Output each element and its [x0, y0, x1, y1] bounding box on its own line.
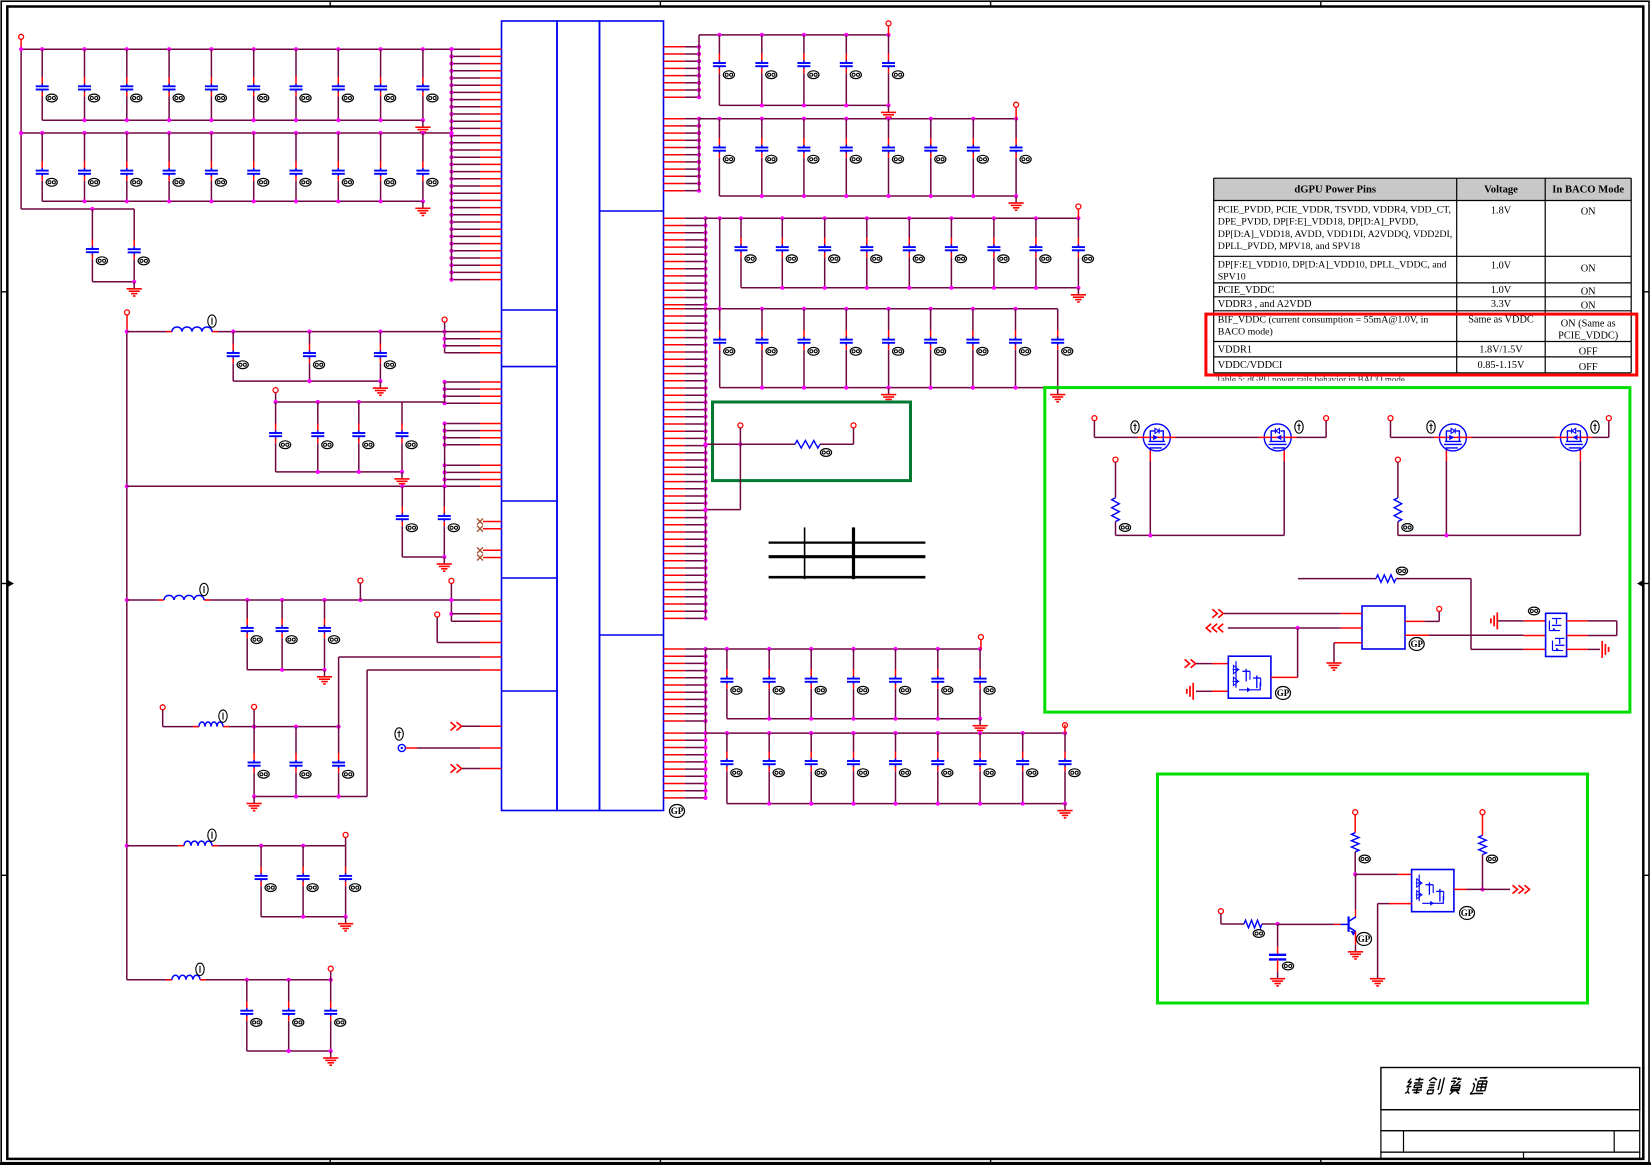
svg-text:ON: ON: [1581, 301, 1596, 312]
port P26: [1353, 810, 1358, 815]
capacitor C201 (row2): [36, 133, 58, 201]
wire U2 out1 to port: [1405, 612, 1439, 622]
capacitor C406: [352, 402, 374, 472]
label R2: [1119, 524, 1130, 532]
resistor R4 (series): [1298, 575, 1471, 583]
port P4: [435, 612, 440, 617]
testpoint TP1 (no-connect circle): [398, 744, 405, 751]
resistor R5 (pull-up): [1351, 815, 1359, 877]
U1 left no-connect pins group 5a: [483, 522, 502, 529]
U1 part label: [670, 805, 685, 818]
wire left main bus: [125, 315, 129, 980]
port P13: [1014, 102, 1019, 107]
wire Q8 pin2 to ground: [1378, 904, 1412, 972]
ground G5: [247, 797, 262, 811]
capacitor C501 (rowR1): [713, 35, 735, 106]
svg-text:DPLL_PVDD, MPV18, and SPV18: DPLL_PVDD, MPV18, and SPV18: [1218, 241, 1360, 252]
wire cap row R2 top bus: [699, 117, 1018, 121]
svg-text:3.3V: 3.3V: [1491, 299, 1512, 310]
svg-text:VDDR3 , and A2VDD: VDDR3 , and A2VDD: [1218, 299, 1312, 310]
capacitor C106 (row1): [247, 49, 269, 120]
svg-text:PCIE_VDDC): PCIE_VDDC): [1558, 331, 1618, 342]
capacitor C420: [282, 980, 304, 1051]
capacitor C107 (row1): [290, 49, 312, 120]
capacitor C904 (rowR5): [847, 649, 869, 719]
wire left pin bus 4: [444, 424, 446, 487]
svg-text:ON: ON: [1581, 207, 1596, 218]
svg-text:SPV10: SPV10: [1218, 272, 1246, 283]
capacitor C409: [438, 486, 460, 557]
capacitor C707 (rowR3): [987, 218, 1009, 287]
wire G1 bus: [127, 330, 445, 334]
wire U2 out2 to Q5 box: [1405, 634, 1546, 636]
port P8: [160, 705, 165, 710]
label Q9: [1357, 933, 1372, 946]
ground Q8: [1370, 972, 1385, 986]
capacitor C204 (row2): [163, 133, 185, 201]
wire port P16 stem: [1064, 725, 1066, 734]
label TP1: [395, 728, 403, 740]
label R4: [1396, 567, 1407, 575]
transistor Q6 (dual FET pack): [1228, 656, 1271, 698]
capacitor C414: [290, 727, 312, 797]
wire Q1-Q2: [1176, 436, 1260, 438]
transistor Q1 (PMOS): [1138, 424, 1176, 462]
off-page connector (<<<) U2 input: [1206, 624, 1223, 632]
resistor R7 (pull-up): [1479, 815, 1487, 892]
capacitor C504 (rowR1): [840, 35, 862, 106]
ground (side) Q7 out: [1602, 641, 1608, 658]
wire cap row R6 top bus: [706, 731, 1068, 735]
capacitor C708 (rowR3): [1029, 218, 1051, 287]
wire Q8 output: [1454, 888, 1510, 890]
label R3: [1402, 524, 1413, 532]
capacitor C902 (rowR5): [763, 649, 785, 719]
wire P22 to Q3: [1391, 421, 1435, 438]
wire cap row 2 top bus: [19, 131, 454, 135]
svg-text:1.0V: 1.0V: [1491, 261, 1512, 272]
highlight box (red): [1206, 314, 1637, 375]
wire Q6 gate: [1196, 663, 1228, 665]
capacitor C502 (rowR1): [755, 35, 777, 106]
label Q4: [1591, 421, 1599, 433]
ground rowR3: [1071, 288, 1086, 302]
wire R4 down-link: [1471, 579, 1546, 650]
capacitor C411: [276, 600, 298, 670]
ground rowR4a: [881, 388, 896, 402]
svg-text:DP[D:A]_VDD18, AVDD, VDD1DI, A: DP[D:A]_VDD18, AVDD, VDD1DI, A2VDDQ, VDD…: [1218, 229, 1453, 240]
capacitor C603 (rowR2): [797, 119, 819, 196]
wire cap row R2 bottom bus: [719, 194, 1018, 198]
svg-text:ON (Same as: ON (Same as: [1561, 319, 1616, 330]
wire port P2 stem and bus: [443, 322, 447, 353]
U1 right pin bank 6: [664, 731, 708, 800]
label U2: [1409, 638, 1424, 651]
capacitor C109 (row1): [374, 49, 396, 120]
wire port P10 stem: [345, 838, 347, 846]
port P19: [1092, 416, 1097, 421]
ground (cap row2): [415, 201, 430, 215]
label R7: [1486, 855, 1497, 863]
ground (side) Q6: [1187, 683, 1193, 700]
capacitor C801 (rowR4): [713, 309, 735, 388]
ground G2: [394, 472, 409, 486]
svg-text:Same as VDDC: Same as VDDC: [1468, 315, 1534, 326]
ground Q9: [1348, 945, 1363, 959]
wire port P1 stem: [20, 40, 22, 50]
wire G5 bottom bus: [252, 794, 367, 798]
capacitor C601 (rowR2): [713, 119, 735, 196]
wire G6 bus: [127, 844, 346, 848]
wire right pin bus 3: [705, 218, 707, 304]
U1 right pin bank 2: [664, 117, 702, 193]
ground rowR4b: [1050, 388, 1065, 402]
sheet right zone arrow: [1638, 580, 1649, 587]
ground rowR2: [1009, 196, 1024, 210]
capacitor C905 (rowR5): [889, 649, 911, 719]
resistor R3 (gate pull): [1394, 462, 1402, 535]
wire port P4 to pin: [437, 617, 501, 642]
wire cap row R4 top bus: [706, 307, 1058, 311]
wire gate bus right pair: [1398, 461, 1581, 538]
ground rowR1: [881, 105, 896, 119]
ground (side) Q7: [1491, 612, 1497, 629]
capacitor C402: [303, 332, 325, 382]
svg-text:BIF_VDDC (current consumption: BIF_VDDC (current consumption = 55mA@1.0…: [1218, 315, 1429, 326]
inductor L3: [193, 710, 229, 727]
wire cap row R5 top bus: [706, 647, 983, 651]
ground G4: [317, 670, 332, 684]
transistor Q7 (dual FET pack): [1546, 613, 1567, 656]
wire R5 node to Q9 collector: [1355, 874, 1357, 917]
inductor L2: [158, 583, 210, 600]
capacitor CA09 (rowR6): [1059, 733, 1081, 804]
label R1: [820, 449, 831, 457]
svg-text:dGPU Power Pins: dGPU Power Pins: [1294, 185, 1376, 196]
capacitor C703 (rowR3): [818, 218, 840, 287]
wire port P12 stem: [888, 26, 890, 35]
wire R6 to Q9 base: [1278, 923, 1341, 925]
GPU IC U1 right block: [600, 21, 664, 811]
capacitor C206 (row2): [247, 133, 269, 201]
port P28: [1480, 810, 1485, 815]
capacitor C704 (rowR3): [860, 218, 882, 287]
ground G6: [338, 917, 353, 931]
wire right pin bus 5: [705, 649, 707, 798]
capacitor C706 (rowR3): [945, 218, 967, 287]
wire cap row R6 bottom bus: [727, 802, 1067, 806]
wire U2 pin3 to ground: [1334, 643, 1362, 656]
wire port P11 stem: [330, 971, 332, 979]
svg-text:DPE_PVDD, DP[F:E]_VDD18, DP[D:: DPE_PVDD, DP[F:E]_VDD18, DP[D:A]_PVDD,: [1218, 217, 1419, 228]
resistor R6 (base): [1221, 920, 1280, 928]
capacitor C605 (rowR2): [882, 119, 904, 196]
ground U2: [1326, 656, 1341, 670]
capacitor C405: [311, 402, 333, 472]
wire Q6 drain up to U2 pin2: [1271, 628, 1298, 677]
ground C430: [1270, 972, 1285, 986]
capacitor C210 (row2): [416, 133, 438, 201]
label Q2: [1295, 421, 1303, 433]
wire cap row R5 bottom bus: [727, 717, 982, 721]
capacitor C209 (row2): [374, 133, 396, 201]
svg-text:VDDR1: VDDR1: [1218, 344, 1252, 355]
label C430: [1282, 962, 1293, 970]
wire G4 bus: [127, 598, 480, 602]
wire Q3-Q4: [1472, 436, 1556, 438]
wire cap row R1 top bus: [699, 33, 891, 37]
wire G5 bus: [163, 710, 341, 729]
sheet left zone arrow: [1, 580, 13, 587]
port P22: [1388, 416, 1393, 421]
wire cap pair top bus: [21, 207, 134, 211]
svg-text:ON: ON: [1581, 287, 1596, 298]
capacitor C104 (row1): [163, 49, 185, 120]
capacitor C404: [269, 402, 291, 472]
controller U2: [1362, 606, 1405, 649]
capacitor C809 (rowR4): [1051, 309, 1073, 388]
port P18: [851, 423, 856, 428]
port P5 (left rail): [125, 310, 130, 315]
wire G3 bus: [127, 484, 447, 488]
svg-text:PCIE_VDDC: PCIE_VDDC: [1218, 285, 1275, 296]
U1 right pin bank 1: [664, 45, 702, 100]
capacitor C401: [227, 332, 249, 382]
capacitor C418: [339, 846, 361, 917]
off-page connector (>>) pin A: [451, 722, 462, 730]
svg-text:0.85-1.15V: 0.85-1.15V: [1478, 360, 1525, 371]
capacitor C608 (rowR2): [1010, 119, 1032, 196]
port P23: [1606, 416, 1611, 421]
inductor L5: [166, 963, 206, 980]
ground G7: [323, 1051, 338, 1065]
capacitor C901 (rowR5): [720, 649, 742, 719]
svg-text:In BACO Mode: In BACO Mode: [1552, 185, 1624, 196]
svg-text:GP: GP: [671, 806, 684, 816]
wire cap row R4 bottom bus: [720, 386, 1060, 390]
capacitor C903 (rowR5): [805, 649, 827, 719]
capacitor C804 (rowR4): [840, 309, 862, 388]
U1 left pin group 6: [451, 600, 501, 621]
svg-text:GP: GP: [1461, 908, 1474, 918]
svg-text:OFF: OFF: [1579, 346, 1598, 357]
capacitor C702 (rowR3): [776, 218, 798, 287]
off-page connector (>>>) output: [1513, 885, 1530, 893]
wire port P13 stem: [1015, 107, 1017, 118]
transistor Q4 (PMOS): [1555, 424, 1593, 462]
wire pin A: [462, 725, 502, 727]
capacitor C802 (rowR4): [756, 309, 778, 388]
port P7: [358, 578, 363, 583]
U1 right pin bank 4: [664, 307, 708, 621]
port P15: [978, 635, 983, 640]
svg-text:DP[F:E]_VDD10, DP[D:A]_VDD10,: DP[F:E]_VDD10, DP[D:A]_VDD10, DPLL_VDDC,…: [1218, 260, 1447, 271]
transistor Q2 (PMOS): [1259, 424, 1297, 462]
capacitor C805 (rowR4): [882, 309, 904, 388]
wire port P7 stem: [359, 583, 361, 600]
capacitor C202 (row2): [78, 133, 100, 201]
port P25: [1437, 606, 1442, 611]
wire top-left vertical bus: [20, 49, 22, 209]
GPU IC U1 middle block: [557, 21, 600, 811]
wire cap row 1 bottom bus: [42, 118, 425, 122]
capacitor C807 (rowR4): [966, 309, 988, 388]
port P16: [1063, 723, 1068, 728]
dGPU power pins table: [1214, 178, 1632, 373]
wire Q6 source: [1196, 690, 1228, 692]
ground G1: [373, 381, 388, 395]
capacitor C606 (rowR2): [924, 119, 946, 196]
capacitor C709 (rowR3): [1072, 218, 1094, 287]
capacitor C408: [396, 486, 418, 557]
capacitor C208 (row2): [332, 133, 354, 201]
label Q8: [1460, 907, 1475, 920]
wire Q4 to P23: [1593, 421, 1609, 438]
port P20: [1324, 416, 1329, 421]
label R6: [1253, 930, 1264, 938]
wire Q7 feedback loop: [1567, 621, 1617, 636]
capacitor C419: [240, 980, 262, 1051]
capacitor C413: [248, 727, 270, 797]
capacitor C203 (row2): [120, 133, 142, 201]
ground (cap pair): [127, 282, 142, 296]
table caption (clipped): [1216, 375, 1405, 385]
off-page connector (>>) Q6 gate: [1185, 659, 1196, 667]
U1 left pin group 2: [445, 332, 502, 353]
wire G7 bottom bus: [247, 1049, 333, 1053]
wire G3 bottom bus: [402, 555, 446, 559]
ground rowR6: [1057, 804, 1072, 818]
capacitor C302: [128, 209, 150, 282]
wire cap row R3 top bus: [706, 216, 1081, 220]
label Q7: [1528, 607, 1539, 615]
capacitor CA07 (rowR6): [974, 733, 996, 804]
port P10: [343, 832, 348, 837]
wire port P15 stem: [980, 640, 982, 649]
capacitor C102 (row1): [78, 49, 100, 120]
wire cap row 1 top bus: [19, 47, 454, 51]
capacitor C415: [332, 727, 354, 797]
wire G5 to U1 pin (sense+): [339, 657, 480, 727]
capacitor C417: [297, 846, 319, 917]
wire P27 stem: [1220, 914, 1222, 924]
svg-text:OFF: OFF: [1579, 362, 1598, 373]
transistor Q9 (NPN): [1341, 917, 1357, 936]
capacitor C105 (row1): [205, 49, 227, 120]
wire cap pair bottom bus: [92, 280, 136, 284]
capacitor C505 (rowR1): [882, 35, 904, 106]
ground rowR5: [973, 719, 988, 733]
capacitor C205 (row2): [205, 133, 227, 201]
capacitor CA06 (rowR6): [931, 733, 953, 804]
port P12: [886, 21, 891, 26]
wire R4 bus tap lower: [703, 444, 740, 511]
capacitor C503 (rowR1): [797, 35, 819, 106]
wire G6 bottom bus: [261, 915, 348, 919]
label Q1: [1131, 421, 1139, 433]
U1 right pin bank 5: [664, 647, 708, 723]
label R5: [1359, 855, 1370, 863]
port P17: [738, 423, 743, 428]
power switch enclosure (green box): [1045, 388, 1630, 712]
svg-text:1.0V: 1.0V: [1491, 285, 1512, 296]
wire R4 bus tap upper: [703, 442, 742, 446]
svg-text:1.8V: 1.8V: [1491, 206, 1512, 217]
svg-text:GP: GP: [1277, 688, 1290, 698]
level shifter enclosure (green box 2): [1158, 774, 1588, 1003]
capacitor C803 (rowR4): [798, 309, 820, 388]
wire Q9 emitter: [1355, 932, 1357, 945]
capacitor C906 (rowR5): [931, 649, 953, 719]
capacitor C207 (row2): [290, 133, 312, 201]
ground (cap row1): [415, 120, 430, 134]
capacitor CA05 (rowR6): [889, 733, 911, 804]
capacitor CA03 (rowR6): [805, 733, 827, 804]
svg-text:GP: GP: [1410, 639, 1423, 649]
wire right pin bus 1: [698, 35, 700, 97]
wire rowR3-rowR4 link: [719, 218, 721, 308]
port P24: [1395, 457, 1400, 462]
capacitor C705 (rowR3): [903, 218, 925, 287]
U1 left block dividers: [502, 310, 558, 691]
capacitor C412: [318, 600, 340, 670]
wire G7 bus: [127, 978, 333, 982]
capacitor C602 (rowR2): [755, 119, 777, 196]
wire port P18 stem: [853, 428, 855, 444]
capacitor CA04 (rowR6): [847, 733, 869, 804]
port P3: [449, 578, 454, 583]
wire U2 pin2: [1228, 626, 1362, 630]
capacitor C430 (base filter): [1269, 924, 1286, 972]
transistor Q3 (PMOS): [1434, 424, 1472, 462]
wire TP1 to pin: [405, 747, 501, 749]
wire left pin bus 1: [451, 49, 453, 279]
GPU IC U1 left block: [502, 21, 558, 811]
resistor R1 (sense): [740, 441, 853, 449]
capacitor C301: [86, 209, 108, 282]
label Q6: [1276, 687, 1291, 700]
wire P19 to Q1: [1094, 421, 1138, 438]
wire cap row 2 bottom bus: [42, 199, 425, 203]
capacitor C416: [255, 846, 277, 917]
inductor L1: [166, 315, 218, 332]
wire port P9 stem: [253, 710, 255, 727]
wire right pin bus 4: [705, 309, 707, 619]
U1 left pin group 4: [443, 421, 502, 488]
capacitor C806 (rowR4): [924, 309, 946, 388]
resistor R2 (gate pull): [1112, 462, 1120, 535]
svg-text:Voltage: Voltage: [1484, 185, 1518, 196]
capacitor CA01 (rowR6): [720, 733, 742, 804]
port P9: [252, 704, 257, 709]
capacitor C108 (row1): [332, 49, 354, 120]
wire G4 bottom bus: [247, 668, 326, 672]
capacitor C407: [396, 402, 418, 472]
wire port P3 bus: [449, 584, 453, 622]
off-page connector (>>) pin B: [451, 764, 462, 772]
ground G3: [437, 557, 452, 571]
inductor L4: [178, 829, 218, 846]
capacitor C110 (row1): [416, 49, 438, 120]
port P27: [1218, 909, 1223, 914]
U1 left pin group 3: [443, 380, 502, 405]
off-page connector (>>) U2 enable: [1212, 609, 1223, 617]
U1 left no-connect pins group 5b: [483, 550, 502, 557]
wire port P14 stem: [1077, 209, 1079, 218]
wire G5 to U1 pin (sense-): [367, 670, 480, 797]
port P21: [1113, 457, 1118, 462]
wire G2 bottom bus: [276, 470, 405, 474]
